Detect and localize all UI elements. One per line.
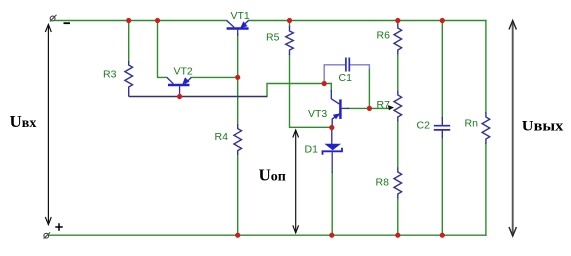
svg-text:Uвых: Uвых bbox=[522, 118, 564, 134]
svg-text:R5: R5 bbox=[266, 32, 280, 44]
svg-text:R4: R4 bbox=[215, 131, 229, 143]
svg-text:R7: R7 bbox=[377, 99, 391, 111]
svg-text:C2: C2 bbox=[417, 120, 431, 132]
svg-text:Rn: Rn bbox=[465, 118, 479, 130]
svg-text:VT1: VT1 bbox=[231, 10, 250, 22]
svg-text:Uоп: Uоп bbox=[259, 166, 286, 185]
svg-text:R6: R6 bbox=[377, 30, 391, 42]
svg-text:C1: C1 bbox=[339, 72, 353, 84]
svg-text:R8: R8 bbox=[376, 177, 390, 189]
svg-text:D1: D1 bbox=[305, 144, 319, 156]
svg-text:VT3: VT3 bbox=[308, 108, 327, 120]
svg-text:VT2: VT2 bbox=[174, 66, 193, 78]
svg-text:Uвх: Uвх bbox=[10, 112, 37, 131]
svg-text:R3: R3 bbox=[103, 69, 117, 81]
